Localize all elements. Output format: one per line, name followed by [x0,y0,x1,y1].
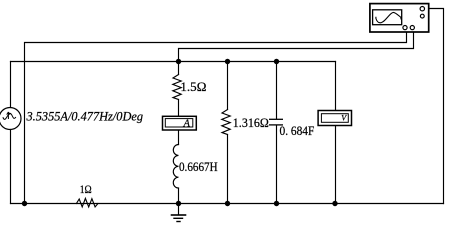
svg-text:1Ω: 1Ω [80,182,92,196]
svg-text:A: A [183,118,191,129]
svg-text:1.316Ω: 1.316Ω [233,116,269,130]
svg-text:3.5355A/0.477Hz/0Deg: 3.5355A/0.477Hz/0Deg [26,109,144,123]
svg-text:0.6667H: 0.6667H [179,160,218,174]
svg-text:1.5Ω: 1.5Ω [180,79,206,94]
svg-text:0. 684F: 0. 684F [280,124,315,138]
